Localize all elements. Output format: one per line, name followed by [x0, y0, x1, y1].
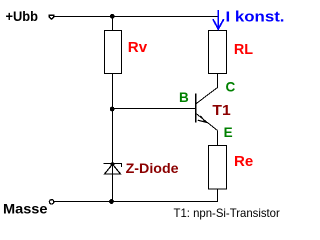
svg-text:C: C	[226, 80, 236, 95]
svg-text:+Ubb: +Ubb	[6, 8, 39, 24]
svg-text:RL: RL	[234, 41, 253, 58]
svg-text:T1: T1	[212, 102, 230, 119]
svg-text:Re: Re	[234, 153, 253, 170]
svg-text:B: B	[179, 90, 189, 105]
svg-text:I konst.: I konst.	[226, 10, 285, 26]
svg-text:Rv: Rv	[128, 40, 147, 56]
svg-text:Z-Diode: Z-Diode	[126, 161, 180, 176]
svg-text:T1: npn-Si-Transistor: T1: npn-Si-Transistor	[174, 206, 280, 220]
svg-text:Masse: Masse	[3, 201, 48, 217]
svg-text:E: E	[224, 125, 233, 140]
